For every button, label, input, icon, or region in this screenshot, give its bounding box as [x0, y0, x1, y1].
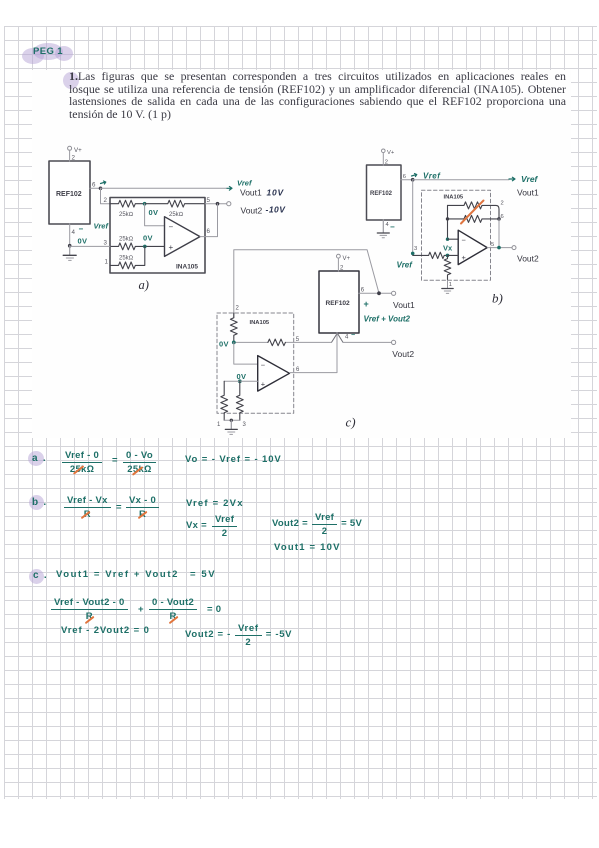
REF102 U3 box [367, 165, 402, 220]
svg-text:+: + [364, 299, 369, 309]
svg-text:0V: 0V [237, 372, 247, 381]
svg-text:1: 1 [217, 422, 221, 428]
equation c fraction 2 [149, 597, 197, 622]
node 0V feedback a [143, 202, 147, 206]
svg-text:2: 2 [104, 197, 108, 204]
label a. [32, 453, 46, 464]
svg-text:b): b) [492, 291, 503, 306]
highlight blob c [29, 569, 44, 584]
svg-text:−: − [390, 223, 395, 232]
svg-text:Vout1: Vout1 [240, 188, 262, 198]
resistor R1 25k (pin2 row) [110, 200, 145, 207]
equation c line 3 [61, 625, 150, 636]
svg-text:INA105: INA105 [176, 264, 198, 271]
INA105 dashed box b [422, 190, 491, 280]
svg-text:0V: 0V [78, 237, 88, 246]
svg-text:4: 4 [386, 222, 390, 228]
svg-text:a): a) [139, 278, 149, 292]
svg-text:Vref + Vout2: Vref + Vout2 [364, 315, 411, 324]
ground b2 [442, 288, 453, 290]
node feedback right b [497, 217, 501, 221]
wire inverting input b [448, 238, 459, 240]
svg-text:Vref: Vref [237, 179, 253, 188]
svg-text:Vref: Vref [423, 172, 441, 181]
orange slash c1 [85, 616, 95, 624]
svg-text:Vref: Vref [521, 174, 539, 184]
svg-text:3: 3 [414, 246, 417, 252]
wire top loop c [234, 250, 379, 318]
equation b fraction 2 [126, 495, 159, 520]
equation a result [185, 454, 282, 465]
svg-text:REF102: REF102 [370, 191, 393, 197]
svg-text:+: + [169, 243, 174, 252]
equation c result [185, 623, 292, 648]
equation a fraction 1 [62, 450, 102, 475]
svg-text:Vref: Vref [397, 261, 414, 270]
INA105 dashed box c [217, 313, 294, 413]
wire junction down to pin 3 b [412, 180, 414, 254]
teal arrowhead Vref line [227, 187, 232, 191]
wire feedback right vertical b [498, 219, 500, 248]
orange slash across feedback resistors [461, 201, 484, 224]
pin 6 wire b [401, 179, 413, 181]
svg-text:3: 3 [104, 240, 108, 247]
wire junction down to pin 2 INA105 [101, 188, 111, 203]
pin 4 wire b [382, 220, 384, 233]
svg-text:c): c) [346, 415, 356, 430]
svg-text:1: 1 [449, 282, 452, 288]
V+ terminal b [382, 149, 386, 153]
equation c line 1 [56, 569, 216, 580]
ground c [230, 420, 232, 429]
svg-text:−: − [351, 332, 355, 339]
white content box [32, 70, 571, 438]
svg-text:2: 2 [501, 201, 504, 207]
node Vx b [446, 254, 450, 258]
node pin3 junction [143, 245, 147, 249]
highlight blob b [29, 495, 44, 510]
wire pin1 to ground b [447, 280, 449, 288]
node output junction a [216, 202, 220, 206]
svg-text:+: + [261, 380, 266, 389]
wire noninverting row c [224, 380, 258, 382]
svg-text:6: 6 [403, 174, 406, 180]
svg-text:4: 4 [345, 335, 349, 341]
node noninverting c [238, 379, 242, 383]
resistor R7 input b [413, 252, 448, 258]
svg-text:2: 2 [236, 306, 240, 312]
svg-text:5: 5 [207, 197, 211, 204]
svg-text:REF102: REF102 [326, 300, 351, 307]
equation c fraction 1 [51, 597, 128, 622]
plus c [138, 604, 144, 615]
orange slash b1 [81, 511, 91, 519]
svg-text:INA105: INA105 [444, 195, 464, 201]
resistor R9 vertical c [230, 313, 237, 342]
svg-text:25kΩ: 25kΩ [119, 212, 134, 218]
resistor R3 25k (pin3 row) [110, 243, 165, 250]
equation b Vref=2Vx [186, 498, 244, 509]
pin 6 wire a [90, 187, 101, 189]
highlight blob a [28, 451, 44, 466]
svg-text:5: 5 [491, 242, 494, 248]
terminal Vout1 c [392, 291, 396, 295]
svg-text:Vout2: Vout2 [517, 254, 539, 264]
resistor R6 feedback bottom b [448, 215, 500, 222]
svg-text:V+: V+ [387, 150, 395, 156]
op-amp A2 [458, 230, 487, 264]
wire 0V node to inverting input c [234, 342, 258, 364]
resistor R2 25k (feedback) [145, 200, 205, 207]
svg-text:Vout2: Vout2 [241, 206, 263, 216]
svg-text:Vout1: Vout1 [393, 300, 415, 310]
ground a [69, 246, 71, 256]
orange slash a1 [73, 465, 84, 474]
svg-text:Vx: Vx [443, 244, 453, 253]
label c. [33, 570, 47, 581]
terminal Vout2 c [392, 340, 396, 344]
svg-text:4: 4 [72, 229, 76, 236]
problem statement paragraph [69, 70, 566, 120]
equals 0 c [207, 604, 221, 615]
REF102 U4 box [319, 271, 359, 333]
teal arrowhead Vref b [509, 177, 515, 181]
svg-text:25kΩ: 25kΩ [119, 256, 134, 262]
wire V+ to box c [337, 258, 339, 271]
svg-text:Vref: Vref [94, 222, 110, 231]
wire opamp output up to row c [290, 333, 338, 373]
equals b [116, 502, 122, 513]
wire REF102 pin 4 down [69, 224, 71, 246]
svg-text:6: 6 [361, 288, 365, 294]
orange slash c2 [169, 616, 179, 624]
wire V+ to box b [382, 153, 384, 165]
resistor R10 output row c [268, 339, 285, 346]
node pin3 teal b [411, 252, 415, 256]
wire opamp output b [487, 247, 512, 249]
wire ground junction to pin3 [70, 245, 110, 247]
label b. [32, 497, 47, 508]
node ground junction a [68, 244, 72, 248]
svg-text:25kΩ: 25kΩ [119, 237, 134, 243]
svg-text:−: − [169, 223, 174, 232]
node Vref junction a [99, 187, 103, 191]
svg-text:−: − [261, 361, 266, 370]
terminal Vout2 a [227, 202, 231, 206]
V+ terminal a [68, 146, 72, 150]
svg-text:V+: V+ [343, 256, 351, 262]
wire output row c [234, 341, 392, 343]
node 0V c [232, 341, 236, 345]
svg-text:6: 6 [92, 182, 96, 189]
svg-text:6: 6 [501, 214, 504, 220]
orange slash b2 [138, 511, 148, 519]
svg-text:Vout1: Vout1 [517, 188, 539, 198]
node feedback left b [446, 217, 449, 220]
equation b Vout2 [272, 512, 362, 537]
teal arrow near pin 6 [101, 181, 106, 184]
orange slash a2 [132, 466, 143, 475]
equation b Vout1 [274, 542, 341, 553]
wire feedback left vertical b [447, 205, 449, 239]
svg-text:REF102: REF102 [56, 191, 82, 198]
highlight blob on "1." [63, 72, 79, 89]
ground b [377, 232, 389, 234]
resistor R12 vertical right c [236, 381, 243, 420]
node ground junction c [230, 419, 233, 422]
terminal Vout2 b [512, 246, 516, 250]
svg-text:Vout2: Vout2 [392, 349, 414, 359]
svg-text:25kΩ: 25kΩ [169, 212, 184, 218]
wire ground row c [224, 419, 240, 421]
wire Vx to noninverting b [448, 254, 459, 256]
svg-text:V+: V+ [74, 147, 82, 154]
V+ terminal c [337, 254, 341, 258]
svg-text:1: 1 [105, 259, 109, 266]
op-amp A1 [165, 217, 201, 257]
node pin6 junction c [377, 291, 381, 295]
resistor R5 feedback top b [448, 202, 500, 219]
svg-text:+: + [462, 253, 467, 262]
svg-text:2: 2 [385, 160, 388, 166]
svg-text:0V: 0V [219, 340, 229, 349]
wire pin5 to output terminal [205, 203, 227, 205]
node Vref junction b [411, 178, 415, 182]
PEG 1 header text [33, 46, 63, 57]
svg-text:−: − [79, 225, 84, 234]
wire Vref long b [413, 179, 509, 181]
INA105 U2 box [110, 198, 205, 274]
svg-text:−: − [462, 236, 467, 245]
resistor R4 25k (pin1 row) [110, 246, 145, 268]
wire opamp output to junction [200, 204, 218, 237]
equation b Vx= [186, 514, 237, 539]
op-amp A3 [258, 356, 290, 392]
node inverting input b [446, 238, 449, 241]
svg-text:3: 3 [243, 422, 247, 428]
PEG 1 header highlight blobs [22, 48, 44, 64]
equation a fraction 2 [123, 450, 156, 475]
resistor R8 to ground b [444, 255, 451, 280]
equation b fraction 1 [64, 495, 111, 520]
wire V+ to box [69, 150, 71, 161]
REF102 U1 box [49, 161, 90, 224]
svg-text:INA105: INA105 [250, 320, 270, 326]
svg-text:6: 6 [207, 228, 211, 235]
pin 6 wire c [359, 292, 392, 294]
pin 4 caret connection c [332, 333, 344, 342]
svg-text:2: 2 [72, 155, 76, 162]
svg-text:0V: 0V [149, 208, 159, 217]
node output junction b [497, 246, 501, 250]
svg-text:10V: 10V [267, 188, 285, 198]
wire 0V node to inverting input [145, 204, 165, 226]
svg-text:0V: 0V [143, 234, 153, 243]
svg-text:-10V: -10V [266, 205, 287, 215]
resistor R11 vertical left c [221, 381, 228, 420]
teal arrow at junction b [412, 174, 417, 177]
wire Vref to arrow [101, 187, 228, 189]
equals a [112, 455, 118, 466]
